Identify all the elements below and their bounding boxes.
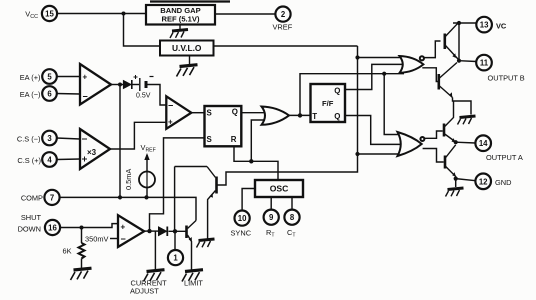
svg-text:EA (−): EA (−) [20,90,41,99]
svg-text:S: S [207,109,212,118]
svg-text:ADJUST: ADJUST [130,287,159,296]
svg-text:U.V.L.O: U.V.L.O [172,43,202,53]
svg-text:−: − [121,234,126,244]
svg-text:15: 15 [45,10,54,19]
svg-text:COMP: COMP [21,194,43,203]
svg-text:F/F: F/F [322,99,334,108]
svg-text:LIMIT: LIMIT [184,279,203,288]
svg-text:9: 9 [269,213,274,222]
svg-text:11: 11 [480,59,489,68]
svg-text:EA (+): EA (+) [20,73,41,82]
svg-text:VC: VC [496,22,507,31]
svg-text:GND: GND [495,178,511,187]
svg-text:7: 7 [50,193,54,202]
svg-text:×3: ×3 [87,148,97,157]
svg-text:6: 6 [47,90,52,99]
svg-text:SYNC: SYNC [231,229,252,238]
svg-text:REF (5.1V): REF (5.1V) [162,15,200,24]
svg-text:OSC: OSC [270,184,289,194]
svg-text:12: 12 [479,177,488,186]
svg-text:Q: Q [232,108,238,117]
svg-text:−: − [168,101,173,111]
svg-text:10: 10 [238,214,247,223]
svg-text:8: 8 [290,213,295,222]
svg-text:+: + [83,73,88,82]
svg-text:OUTPUT A: OUTPUT A [486,153,523,162]
svg-text:0.5mA: 0.5mA [124,169,133,190]
svg-text:+: + [168,118,173,127]
svg-text:−: − [83,92,88,102]
svg-text:5: 5 [47,73,52,82]
svg-text:1: 1 [173,254,178,263]
svg-text:SHUT: SHUT [21,213,42,222]
svg-text:S: S [207,135,212,144]
svg-text:14: 14 [479,139,488,148]
svg-text:13: 13 [480,21,489,30]
svg-text:3: 3 [47,134,52,143]
svg-text:4: 4 [47,156,52,165]
svg-text:0.5V: 0.5V [136,93,151,100]
svg-text:16: 16 [48,224,57,233]
svg-text:C.S (+): C.S (+) [17,156,41,165]
svg-text:T: T [312,112,317,121]
svg-text:350mV: 350mV [85,235,108,244]
svg-text:Q: Q [334,86,340,95]
svg-text:6K: 6K [63,247,72,256]
svg-text:VREF: VREF [273,23,293,32]
svg-text:OUTPUT B: OUTPUT B [488,74,525,83]
svg-text:2: 2 [281,10,286,19]
svg-text:+: + [121,223,126,232]
svg-text:R: R [231,135,237,144]
svg-text:DOWN: DOWN [18,225,41,234]
svg-text:Q: Q [334,112,340,121]
svg-text:C.S (−): C.S (−) [17,135,41,144]
